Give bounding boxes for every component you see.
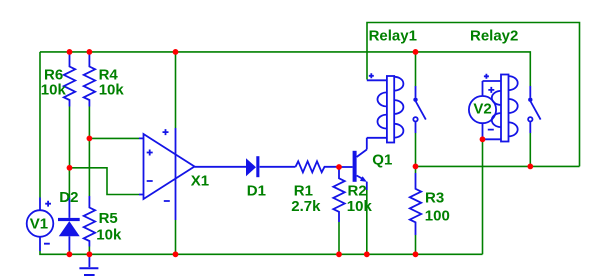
wire noninverting input bbox=[89, 137, 139, 139]
node R2 bottom bbox=[336, 251, 342, 257]
resistor R3 bbox=[410, 173, 450, 235]
wire R5 bottom bbox=[88, 247, 90, 255]
svg-text:2.7k: 2.7k bbox=[291, 198, 321, 215]
wire D2 top bbox=[68, 168, 70, 198]
node op-amp V+ bbox=[173, 49, 179, 55]
wire inverting input bbox=[70, 168, 140, 195]
resistor R6 bbox=[41, 53, 75, 107]
node D2 R6 bbox=[67, 165, 73, 171]
svg-text:V1: V1 bbox=[30, 216, 48, 233]
resistor R1 bbox=[291, 161, 339, 215]
node divider A bbox=[87, 136, 93, 142]
svg-text:100: 100 bbox=[425, 208, 450, 225]
wire R3 bottom bbox=[415, 235, 417, 254]
svg-text:R5: R5 bbox=[99, 210, 118, 227]
wire Q1 emitter bbox=[366, 190, 368, 254]
wire op-amp V- bbox=[175, 220, 177, 254]
transistor Q1 bbox=[339, 138, 392, 190]
node ground R5 bbox=[87, 251, 93, 257]
resistor R4 bbox=[84, 53, 125, 107]
wire D2 bottom bbox=[68, 251, 70, 255]
wire top bus bbox=[40, 52, 530, 86]
wire bottom bus bbox=[40, 251, 483, 254]
wire mid right bus bbox=[416, 165, 580, 167]
node R3 bottom bbox=[413, 251, 419, 257]
wire relay feed loop bbox=[367, 23, 580, 167]
node relay1 switch top bbox=[413, 49, 419, 55]
resistor R2 bbox=[333, 167, 372, 222]
wire relay1 switch top bbox=[415, 52, 417, 86]
node R3 top bbox=[413, 164, 419, 170]
svg-text:10k: 10k bbox=[347, 198, 373, 215]
wire R5 top bbox=[88, 138, 90, 196]
node relay2 switch bottom bbox=[527, 164, 533, 170]
wire R3 top bbox=[415, 166, 417, 173]
wire left rail bbox=[39, 52, 41, 198]
svg-text:10k: 10k bbox=[99, 82, 125, 99]
node Q1 emitter bottom bbox=[364, 251, 370, 257]
ground bbox=[79, 254, 98, 275]
svg-text:Relay2: Relay2 bbox=[470, 27, 518, 44]
node op-amp V- bottom bbox=[173, 251, 179, 257]
wire R2 bottom bbox=[338, 222, 340, 254]
node D2 bottom bbox=[67, 251, 73, 257]
diode D1 bbox=[246, 156, 296, 199]
resistor R5 bbox=[84, 196, 122, 247]
op-amp X1 bbox=[139, 128, 247, 220]
node R4 top bbox=[87, 49, 93, 55]
svg-text:10k: 10k bbox=[41, 82, 67, 99]
wire R4 bottom bbox=[88, 107, 90, 139]
node R6 top bbox=[67, 49, 73, 55]
wire op-amp V+ bbox=[175, 52, 177, 128]
svg-text:D1: D1 bbox=[247, 183, 266, 200]
wire R6 bottom bbox=[69, 107, 71, 168]
svg-text:D2: D2 bbox=[59, 189, 78, 206]
wire relay1 switch bottom bbox=[415, 133, 417, 166]
svg-text:10k: 10k bbox=[96, 226, 122, 243]
diode D2 bbox=[58, 189, 80, 250]
node Q1 base bbox=[336, 164, 342, 170]
voltage source V1 bbox=[27, 198, 54, 252]
node V2 minus bbox=[480, 136, 486, 142]
relay Relay1 bbox=[367, 27, 426, 142]
svg-text:Relay1: Relay1 bbox=[369, 27, 417, 44]
wire V2 riser bbox=[482, 139, 484, 254]
voltage source V2 bbox=[469, 81, 496, 139]
relay Relay2 bbox=[470, 27, 541, 141]
svg-text:Q1: Q1 bbox=[372, 151, 392, 168]
svg-text:X1: X1 bbox=[191, 173, 209, 190]
svg-text:V2: V2 bbox=[473, 101, 491, 118]
svg-text:R3: R3 bbox=[425, 190, 444, 207]
wire relay2 switch bottom bbox=[529, 133, 531, 166]
